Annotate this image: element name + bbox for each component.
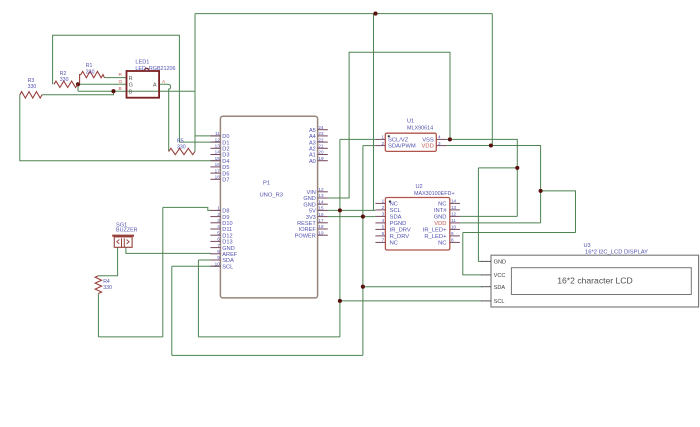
svg-text:B: B: [129, 89, 133, 95]
svg-text:14: 14: [215, 150, 221, 155]
svg-text:SCL: SCL: [222, 264, 233, 270]
svg-text:12: 12: [451, 212, 457, 217]
svg-text:3V3: 3V3: [306, 215, 316, 221]
wire SDA vertical: [362, 146, 364, 356]
node junction B net: [111, 89, 115, 93]
svg-text:D10: D10: [222, 221, 232, 227]
resistor R3: [20, 92, 42, 98]
svg-text:24: 24: [318, 125, 324, 130]
wire VSS branch: [478, 167, 517, 169]
svg-text:D11: D11: [222, 227, 232, 233]
svg-text:11: 11: [215, 131, 220, 136]
svg-text:2: 2: [382, 205, 385, 210]
wire LED top rail to D1: [53, 35, 221, 142]
U2 left pins: [375, 202, 385, 204]
svg-text:5V: 5V: [309, 209, 316, 215]
svg-text:330: 330: [28, 84, 37, 90]
svg-text:17: 17: [215, 168, 221, 173]
wire to pin 11 D0: [195, 135, 221, 137]
svg-text:22: 22: [318, 137, 324, 142]
wire R4 bottom run: [98, 336, 162, 338]
svg-text:4: 4: [382, 218, 385, 223]
U1 pin 1 marker: [388, 135, 390, 137]
svg-text:18: 18: [215, 175, 221, 180]
U1 pins: [375, 138, 385, 140]
svg-text:NC: NC: [438, 202, 446, 208]
svg-text:UNO_R3: UNO_R3: [260, 193, 284, 199]
svg-text:LED_RGB21206: LED_RGB21206: [135, 66, 175, 72]
svg-text:2: 2: [381, 141, 384, 146]
node junction VSS branch: [515, 166, 519, 170]
svg-text:SCL: SCL: [390, 208, 402, 214]
svg-text:RESET: RESET: [297, 221, 316, 227]
svg-text:R1: R1: [86, 63, 93, 69]
wire SDA bottom run: [198, 336, 340, 338]
svg-text:D9: D9: [222, 215, 229, 221]
svg-text:BUZZER: BUZZER: [116, 227, 138, 233]
svg-text:INT#: INT#: [434, 208, 447, 214]
svg-text:U2: U2: [416, 184, 423, 190]
svg-text:D5: D5: [222, 165, 229, 171]
LCD module U3 16*2 I2C LCD DISPLAY: [491, 255, 699, 307]
svg-text:D13: D13: [222, 240, 232, 246]
svg-text:G: G: [129, 83, 133, 89]
wire VSS net: [446, 139, 517, 216]
wire to LCD GND: [478, 168, 482, 262]
svg-text:SDA: SDA: [390, 215, 402, 221]
svg-text:20: 20: [318, 150, 324, 155]
svg-text:12: 12: [318, 187, 324, 192]
wire U2 GND: [460, 215, 518, 217]
svg-text:2: 2: [217, 212, 220, 217]
svg-text:R_DRV: R_DRV: [390, 234, 410, 240]
svg-text:U1: U1: [407, 118, 414, 124]
svg-text:B: B: [119, 86, 122, 92]
svg-text:D3: D3: [222, 153, 229, 159]
svg-text:A1: A1: [309, 153, 316, 159]
wire SDA drop: [197, 260, 199, 337]
wire to LCD SDA: [363, 286, 482, 288]
wire to LCD VCC: [463, 233, 482, 275]
svg-text:GND: GND: [222, 246, 234, 252]
svg-text:R: R: [119, 72, 123, 78]
wire R3 to D4: [20, 95, 221, 161]
svg-text:GND: GND: [303, 202, 315, 208]
svg-text:VDD: VDD: [434, 221, 446, 227]
svg-text:D8: D8: [222, 209, 229, 215]
svg-text:19: 19: [318, 230, 324, 235]
wire VDD net: [446, 146, 540, 223]
svg-text:IR_LED+: IR_LED+: [423, 228, 447, 234]
svg-text:5: 5: [382, 225, 385, 230]
svg-text:3: 3: [217, 218, 220, 223]
svg-text:10: 10: [451, 225, 457, 230]
svg-text:23: 23: [318, 131, 324, 136]
svg-text:D7: D7: [222, 178, 229, 184]
svg-text:R4: R4: [103, 279, 110, 285]
wire buzzer to R4: [98, 247, 117, 275]
svg-text:NC: NC: [390, 241, 398, 247]
svg-text:16: 16: [215, 162, 221, 167]
wire 5V to U2 SCL: [328, 209, 376, 211]
wire to LCD SCL: [340, 300, 482, 302]
buzzer SG1: [112, 235, 134, 237]
U2 right pins: [450, 202, 460, 204]
wire SDA pin 9: [198, 259, 220, 261]
svg-text:17: 17: [318, 218, 324, 223]
svg-text:VDD: VDD: [422, 144, 434, 150]
svg-text:330: 330: [177, 144, 186, 150]
svg-text:LED1: LED1: [135, 60, 149, 66]
svg-text:7: 7: [382, 238, 385, 243]
svg-text:13: 13: [318, 193, 324, 198]
svg-text:12: 12: [215, 137, 221, 142]
wire to D8: [163, 207, 211, 210]
svg-text:R: R: [129, 76, 133, 82]
resistor R5: [169, 148, 195, 154]
svg-text:19: 19: [318, 156, 324, 161]
node junction R1/R2/G: [76, 82, 80, 86]
svg-text:8: 8: [451, 238, 454, 243]
P1 right pins VIN-POWER: [318, 191, 328, 193]
svg-text:330: 330: [60, 77, 69, 83]
svg-text:1: 1: [382, 199, 385, 204]
svg-text:VCC: VCC: [494, 273, 506, 279]
wire GND rail: [328, 52, 450, 198]
svg-text:D12: D12: [222, 233, 232, 239]
wire VCC run: [463, 232, 576, 234]
wire U1 SCL: [340, 138, 375, 140]
svg-text:16*2 I2C_LCD DISPLAY: 16*2 I2C_LCD DISPLAY: [585, 249, 648, 255]
svg-text:15: 15: [215, 156, 221, 161]
wire SCL pin 10: [172, 265, 221, 267]
svg-text:8: 8: [217, 249, 220, 254]
wire vertical x195: [194, 14, 196, 152]
svg-text:330: 330: [86, 69, 95, 75]
svg-text:10: 10: [215, 261, 221, 266]
wire R3 right to B junction: [42, 91, 114, 95]
svg-text:GND: GND: [434, 215, 447, 221]
svg-text:3: 3: [438, 141, 441, 146]
svg-text:16*2 character LCD: 16*2 character LCD: [557, 275, 632, 285]
node junction VDD branch: [539, 189, 543, 193]
svg-text:14: 14: [451, 199, 457, 204]
svg-text:9: 9: [451, 231, 454, 236]
svg-text:D0: D0: [222, 134, 229, 140]
svg-text:D2: D2: [222, 147, 229, 153]
node junction LCD SCL: [338, 299, 342, 303]
svg-text:AREF: AREF: [222, 252, 238, 258]
svg-text:MLX90614: MLX90614: [407, 125, 433, 131]
svg-text:SDA: SDA: [494, 285, 506, 291]
wire SCL drop: [171, 266, 173, 355]
P1 left pins D8-SCL: [210, 209, 220, 211]
wire VDD branch: [541, 191, 576, 233]
node junction top rail: [373, 12, 377, 16]
wire junction drop: [77, 84, 79, 91]
wire R net: [104, 77, 126, 79]
svg-text:GND: GND: [303, 196, 315, 202]
wire A net hook: [159, 84, 171, 151]
svg-text:21: 21: [318, 144, 324, 149]
svg-text:D4: D4: [222, 159, 229, 165]
resistor R4: [95, 276, 101, 294]
wire B net: [78, 90, 195, 92]
wire SCL vertical: [339, 139, 341, 337]
wire vertical x373: [373, 14, 375, 211]
svg-text:1: 1: [217, 206, 220, 211]
node junction 3V3/SDA: [361, 215, 365, 219]
wire 3V3 to U2 SDA: [328, 216, 376, 218]
svg-text:D6: D6: [222, 171, 229, 177]
svg-text:A3: A3: [309, 140, 316, 146]
svg-text:14: 14: [318, 199, 324, 204]
svg-text:A0: A0: [309, 159, 316, 165]
wire U2 VDD: [460, 222, 541, 224]
svg-text:POWER: POWER: [295, 233, 316, 239]
wire R4 bottom lead: [97, 294, 99, 337]
U3 pins: [481, 260, 491, 262]
svg-text:6: 6: [382, 231, 385, 236]
svg-text:4: 4: [217, 224, 220, 229]
svg-text:A4: A4: [309, 134, 316, 140]
svg-text:SDA/PWM: SDA/PWM: [388, 144, 416, 150]
svg-text:PGND: PGND: [390, 221, 407, 227]
svg-text:16: 16: [318, 212, 324, 217]
svg-text:A2: A2: [309, 147, 316, 153]
svg-text:11: 11: [451, 218, 456, 223]
resistor R2: [54, 81, 78, 87]
svg-text:R2: R2: [60, 71, 67, 77]
svg-text:NC: NC: [438, 241, 446, 247]
svg-text:D1: D1: [222, 140, 229, 146]
wire B net through LED: [127, 90, 158, 92]
svg-text:13: 13: [215, 144, 221, 149]
svg-text:SCL/VZ: SCL/VZ: [388, 138, 409, 144]
svg-text:P1: P1: [263, 181, 270, 187]
node junction VSS: [448, 137, 452, 141]
wire D8 vertical: [162, 207, 164, 337]
svg-text:330: 330: [103, 285, 112, 291]
Arduino module P1 UNO_R3: [220, 116, 317, 298]
svg-text:VIN: VIN: [306, 190, 315, 196]
svg-text:G: G: [119, 79, 123, 85]
svg-text:NC: NC: [390, 202, 398, 208]
svg-text:4: 4: [438, 135, 441, 140]
svg-text:1: 1: [381, 135, 384, 140]
svg-text:U3: U3: [584, 243, 591, 249]
U2 pin 1 marker: [389, 200, 391, 202]
svg-text:MAX30100EFD+: MAX30100EFD+: [414, 191, 455, 197]
svg-text:VSS: VSS: [422, 138, 434, 144]
svg-text:R3: R3: [28, 78, 35, 84]
svg-text:6: 6: [217, 237, 220, 242]
wire U1 SDA: [363, 145, 375, 147]
svg-text:3: 3: [382, 212, 385, 217]
svg-text:A5: A5: [309, 128, 316, 134]
node junction LCD SDA: [361, 285, 365, 289]
wire top rail: [195, 13, 492, 15]
resistor R1: [81, 71, 105, 77]
svg-text:15: 15: [318, 206, 324, 211]
svg-text:R_LED+: R_LED+: [424, 234, 447, 240]
IC U1 MLX90614: [385, 133, 436, 151]
LED LED1 LED_RGB21206: [127, 71, 160, 98]
svg-text:5: 5: [217, 230, 220, 235]
node junction VDD: [489, 143, 493, 147]
wire SCL bottom run: [172, 354, 363, 356]
wire buzzer to AREF: [126, 247, 211, 253]
node junction 5V/SCL: [338, 208, 342, 212]
svg-text:GND: GND: [494, 260, 506, 266]
P1 left pins D0-D7: [210, 135, 220, 137]
IC U2 MAX30100EFD+: [385, 198, 449, 251]
svg-text:IR_DRV: IR_DRV: [390, 228, 411, 234]
svg-text:A: A: [153, 83, 157, 89]
svg-text:9: 9: [217, 255, 220, 260]
svg-text:SDA: SDA: [222, 258, 234, 264]
wire G net: [78, 83, 127, 85]
svg-text:IOREF: IOREF: [299, 227, 317, 233]
P1 right pins A5-A0: [318, 129, 328, 131]
svg-text:7: 7: [217, 243, 220, 248]
svg-text:13: 13: [451, 205, 457, 210]
wire vertical x492: [491, 14, 493, 146]
svg-text:SCL: SCL: [494, 299, 505, 305]
svg-text:18: 18: [318, 224, 324, 229]
